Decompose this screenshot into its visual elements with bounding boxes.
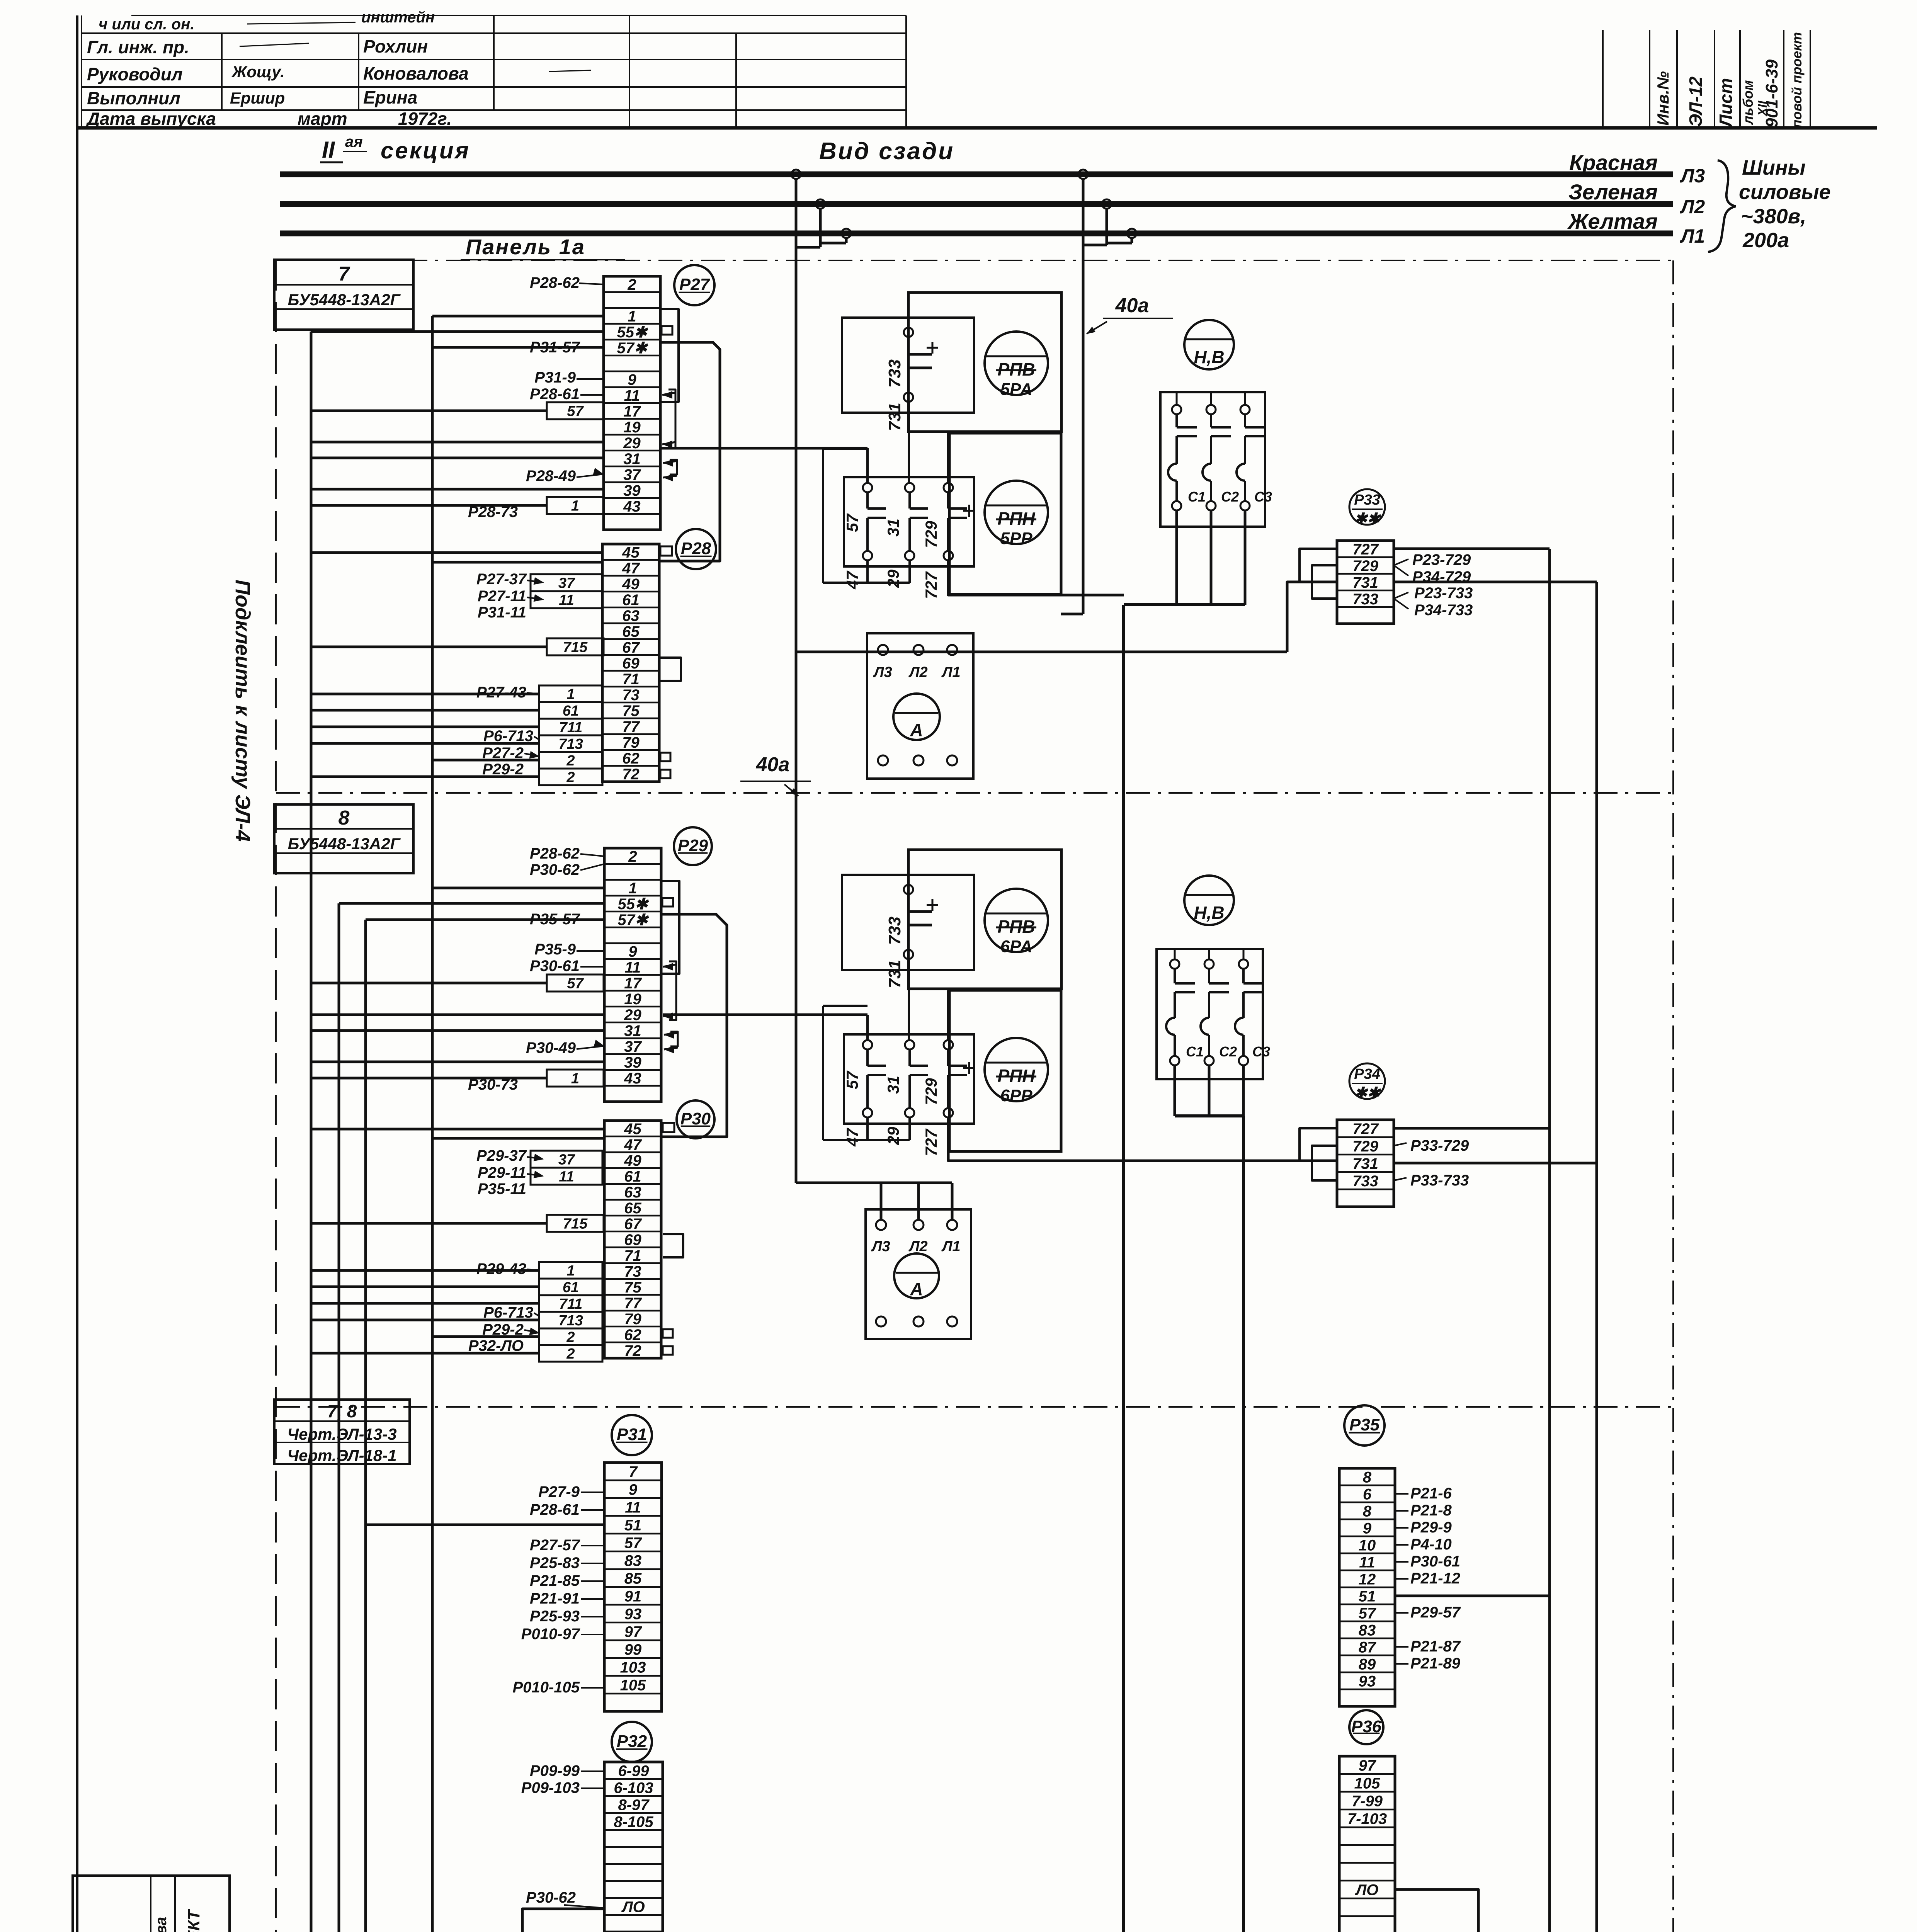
svg-text:Р35-9: Р35-9 — [534, 941, 576, 958]
svg-text:Черт.ЭЛ-18-1: Черт.ЭЛ-18-1 — [287, 1446, 396, 1464]
svg-text:Р010-97: Р010-97 — [521, 1626, 580, 1643]
svg-text:72: 72 — [622, 766, 640, 783]
svg-text:6-99: 6-99 — [618, 1762, 649, 1779]
tap drop wires set 1 — [795, 179, 798, 247]
strip Р27 right jumper bracket rows 1-17 — [660, 309, 679, 402]
svg-text:37: 37 — [624, 1038, 642, 1055]
relay circle Р36 — [1349, 1710, 1383, 1744]
boxed wire tag 2 row 72 (Р30) — [539, 1345, 602, 1362]
svg-text:103: 103 — [620, 1659, 646, 1676]
bus Л2 (Зеленая) — [280, 201, 1673, 207]
svg-text:11: 11 — [559, 1169, 574, 1185]
svg-text:57: 57 — [843, 513, 861, 532]
apparatus РПН-5РР outer box — [949, 433, 1061, 594]
strip Р29 small jumper rows 31-37 with arrows — [670, 1032, 678, 1046]
terminal strip Р33 — [1337, 541, 1394, 624]
svg-text:731: 731 — [1352, 1155, 1378, 1172]
svg-text:1: 1 — [566, 686, 575, 702]
svg-text:67: 67 — [624, 1216, 642, 1233]
РПВ-2 contact terminals 733/731 — [904, 885, 913, 894]
ammeter 1 dial А — [893, 694, 940, 740]
strip Р30 right tabs rows 62/72 — [663, 1329, 673, 1338]
relay circle Р34 with ✱✱ — [1349, 1063, 1385, 1099]
svg-text:Р33-729: Р33-729 — [1410, 1137, 1469, 1154]
svg-text:Р09-103: Р09-103 — [521, 1779, 580, 1796]
svg-text:Р30-62: Р30-62 — [526, 1889, 576, 1906]
svg-text:9: 9 — [1363, 1520, 1372, 1537]
svg-text:200а: 200а — [1742, 229, 1789, 252]
svg-text:62: 62 — [624, 1327, 641, 1344]
svg-text:Выполнил: Выполнил — [87, 88, 180, 108]
title block upper dividers — [150, 1876, 151, 1932]
svg-text:Р31-9: Р31-9 — [534, 369, 576, 386]
РПН-2 polarity plus — [963, 1067, 975, 1069]
svg-text:Р27-11: Р27-11 — [478, 588, 526, 605]
svg-text:✱✱: ✱✱ — [1354, 1085, 1381, 1102]
svg-text:Л1: Л1 — [941, 1238, 960, 1255]
svg-text:45: 45 — [624, 1121, 641, 1138]
svg-text:37: 37 — [623, 466, 641, 483]
svg-text:901-6-39: 901-6-39 — [1762, 59, 1781, 128]
svg-text:Р21-8: Р21-8 — [1410, 1502, 1452, 1519]
title block outer box — [73, 1876, 230, 1932]
svg-text:1: 1 — [628, 880, 637, 897]
svg-text:62: 62 — [622, 750, 640, 767]
svg-text:7: 7 — [629, 1463, 638, 1480]
relay РПН/5РР circle (crossed out) — [985, 481, 1048, 544]
relay circle Р35 — [1344, 1405, 1385, 1446]
svg-text:Панель 1а: Панель 1а — [466, 235, 585, 259]
svg-text:Н,В: Н,В — [1194, 347, 1224, 367]
svg-text:17: 17 — [624, 975, 642, 992]
svg-text:727: 727 — [922, 1128, 940, 1156]
sheet frame left border — [76, 15, 78, 1932]
strip Р28 right tabs rows 62/72 — [660, 753, 670, 761]
svg-text:Р35-57: Р35-57 — [530, 911, 580, 928]
svg-text:Р010-105: Р010-105 — [513, 1679, 580, 1696]
svg-text:7-103: 7-103 — [1347, 1810, 1387, 1827]
svg-text:105: 105 — [1354, 1775, 1380, 1792]
boxed wire tag 2 row 72 — [539, 769, 602, 785]
strip Р30 right tab row 45 — [663, 1123, 674, 1132]
svg-text:77: 77 — [622, 718, 640, 735]
svg-text:57: 57 — [843, 1070, 861, 1089]
svg-text:Л3: Л3 — [873, 664, 892, 680]
svg-text:39: 39 — [623, 482, 641, 499]
svg-text:Р34-729: Р34-729 — [1412, 568, 1471, 585]
svg-text:713: 713 — [558, 736, 583, 752]
terminal strip Р36 — [1339, 1756, 1395, 1932]
РПН polarity plus — [963, 510, 975, 512]
svg-text:Р34: Р34 — [1354, 1066, 1380, 1082]
svg-text:Р29-57: Р29-57 — [1410, 1604, 1461, 1621]
svg-text:57: 57 — [567, 403, 584, 420]
wire strip-57 row to РПН contact 57 — [660, 447, 867, 450]
svg-text:Р31: Р31 — [617, 1425, 647, 1444]
svg-text:89: 89 — [1359, 1656, 1376, 1673]
terminal strip Р34 — [1337, 1120, 1394, 1207]
panel boundary top dash-dot — [276, 260, 1673, 261]
svg-text:Р29-43: Р29-43 — [476, 1260, 526, 1277]
svg-text:55✱: 55✱ — [617, 896, 649, 913]
svg-text:2: 2 — [566, 1346, 575, 1362]
svg-text:Рохлин: Рохлин — [363, 36, 428, 56]
wire strip row29 to РПН-2 contact 57 — [663, 1014, 867, 1016]
РПВ capacitor bars — [909, 353, 932, 356]
svg-text:72: 72 — [624, 1342, 641, 1359]
ammeter 2 dial А — [894, 1253, 939, 1298]
ammeter 1 terminals — [878, 645, 888, 655]
РПН contact sub-box — [844, 477, 974, 566]
svg-text:Р25-93: Р25-93 — [530, 1608, 580, 1625]
strip Р34 labels Р33-733 — [1394, 1178, 1407, 1180]
svg-text:Черт.ЭЛ-13-3: Черт.ЭЛ-13-3 — [287, 1425, 396, 1443]
ammeter 2 bottom studs — [876, 1316, 886, 1327]
terminal strip Р28 — [602, 544, 659, 782]
svg-text:Р33-733: Р33-733 — [1410, 1172, 1469, 1189]
РПН-2 contact sub-box — [844, 1034, 974, 1124]
contactor 1 output bundle to motor wire — [1175, 510, 1178, 605]
svg-text:73: 73 — [624, 1263, 641, 1280]
svg-text:8-97: 8-97 — [618, 1796, 650, 1813]
svg-text:97: 97 — [624, 1623, 642, 1640]
svg-text:Л2: Л2 — [1680, 196, 1705, 218]
svg-text:47: 47 — [622, 560, 640, 577]
svg-text:71: 71 — [622, 671, 640, 688]
svg-text:Л2: Л2 — [908, 1238, 927, 1255]
svg-text:Р21-12: Р21-12 — [1410, 1570, 1460, 1587]
svg-text:31: 31 — [623, 451, 641, 468]
strip Р34 wire 727 to riser x4010 — [1394, 1127, 1550, 1130]
svg-text:69: 69 — [624, 1231, 641, 1248]
svg-text:47: 47 — [843, 570, 861, 589]
svg-text:19: 19 — [624, 991, 641, 1008]
svg-text:37: 37 — [558, 575, 575, 592]
svg-text:Р32: Р32 — [617, 1732, 647, 1751]
relay РПВ/6РА circle (crossed out) — [985, 889, 1048, 952]
svg-text:31: 31 — [884, 1076, 902, 1094]
svg-text:2: 2 — [566, 769, 575, 786]
РПВ polarity plus — [927, 347, 938, 349]
svg-text:40а: 40а — [1115, 294, 1149, 317]
wire РПВ 731 down to РПН 31 — [908, 402, 910, 483]
svg-text:С1: С1 — [1186, 1044, 1204, 1060]
svg-text:Р33: Р33 — [1354, 492, 1380, 508]
svg-text:БУ5448-13А2Г: БУ5448-13А2Г — [288, 835, 401, 853]
svg-text:93: 93 — [624, 1605, 642, 1622]
relay circle Р33 with ✱✱ — [1349, 489, 1385, 525]
svg-text:Р21-89: Р21-89 — [1410, 1655, 1461, 1672]
svg-text:Р4-10: Р4-10 — [1410, 1536, 1452, 1553]
strip Р27 left wires — [432, 315, 604, 318]
bus tap set 1 (node circles) — [791, 170, 801, 179]
svg-text:Р21-87: Р21-87 — [1410, 1638, 1461, 1655]
svg-text:733: 733 — [885, 359, 904, 388]
svg-text:29: 29 — [624, 1007, 641, 1024]
wire 729-2 up to box edge — [947, 990, 949, 1040]
РПВ-2 polarity plus — [927, 904, 938, 906]
svg-text:2: 2 — [628, 848, 637, 865]
svg-text:99: 99 — [624, 1641, 642, 1658]
svg-text:63: 63 — [622, 607, 640, 624]
bus Л3 (Красная) — [280, 172, 1673, 177]
strip Р33 labels Р23-733 Р34-733 — [1394, 592, 1408, 599]
svg-text:Р29-37: Р29-37 — [476, 1147, 527, 1164]
wire 727-2 down and right to strip Р34 — [948, 1117, 1337, 1161]
svg-text:57✱: 57✱ — [617, 912, 649, 929]
svg-text:85: 85 — [624, 1570, 642, 1587]
svg-text:51: 51 — [1359, 1588, 1376, 1605]
contactor 2 poles С1 С2 С3 — [1170, 959, 1179, 969]
svg-text:11: 11 — [559, 592, 574, 609]
РПН-2 contacts — [863, 1040, 872, 1049]
svg-text:11: 11 — [625, 959, 641, 976]
contactor 1 poles С1 С2 С3 — [1172, 405, 1181, 414]
wire riser C (to К8-3) — [366, 920, 595, 1932]
svg-text:69: 69 — [622, 655, 640, 672]
section divider dash-dot 2 — [276, 1406, 1673, 1408]
svg-text:Л1: Л1 — [1680, 225, 1705, 247]
svg-text:1: 1 — [628, 308, 636, 325]
svg-text:6РР: 6РР — [1000, 1086, 1032, 1105]
strip Р34 left stub jumpers — [1300, 1128, 1337, 1161]
svg-text:Л3: Л3 — [871, 1238, 890, 1255]
svg-text:731: 731 — [1352, 574, 1378, 591]
svg-text:секция: секция — [381, 138, 470, 163]
svg-text:31: 31 — [884, 519, 902, 537]
svg-text:С2: С2 — [1219, 1044, 1237, 1060]
jumper loop 57-47 section 2 (x1881) — [661, 914, 727, 1137]
svg-text:Руководил: Руководил — [87, 64, 183, 84]
svg-text:С1: С1 — [1188, 489, 1206, 505]
svg-text:Р28-49: Р28-49 — [526, 468, 576, 485]
svg-text:ч или сл. он.: ч или сл. он. — [99, 16, 194, 33]
relay circle Р28 — [676, 529, 716, 569]
feeder wire to ammeter 2 — [796, 1182, 952, 1184]
svg-text:Р29-9: Р29-9 — [1410, 1519, 1452, 1536]
svg-text:Дата выпуска: Дата выпуска — [85, 109, 216, 129]
svg-text:С3: С3 — [1254, 489, 1272, 505]
svg-text:Р34-733: Р34-733 — [1414, 602, 1473, 619]
svg-text:Вид сзади: Вид сзади — [819, 138, 954, 165]
svg-text:Р29-11: Р29-11 — [478, 1164, 526, 1181]
svg-text:29: 29 — [884, 569, 902, 588]
svg-text:77: 77 — [624, 1295, 642, 1312]
svg-text:49: 49 — [622, 576, 640, 593]
relay РПВ/5РА circle (crossed out) — [985, 332, 1048, 395]
motor wire 1 (x2908) — [1122, 605, 1125, 1932]
svg-text:8: 8 — [338, 807, 350, 829]
svg-text:61: 61 — [563, 703, 579, 719]
svg-text:А: А — [910, 720, 923, 740]
svg-text:8: 8 — [1363, 1469, 1372, 1486]
terminal strip Р32 — [604, 1762, 663, 1932]
svg-text:Н,В: Н,В — [1194, 903, 1224, 923]
svg-text:Р25-83: Р25-83 — [530, 1554, 580, 1571]
svg-text:1972г.: 1972г. — [398, 109, 452, 129]
svg-text:С2: С2 — [1221, 489, 1239, 505]
svg-text:51: 51 — [624, 1517, 642, 1534]
svg-text:ТЯЖПРОМЭЛЕКТРОПРОЕКТ: ТЯЖПРОМЭЛЕКТРОПРОЕКТ — [185, 1909, 203, 1932]
svg-text:91: 91 — [624, 1588, 642, 1605]
ammeter 1 bottom studs — [878, 755, 888, 765]
svg-text:65: 65 — [622, 623, 640, 640]
strip Р29 right jumper bracket rows 1-17 — [661, 881, 679, 974]
wire loop 47/29 left — [866, 560, 869, 583]
brace for bus group — [1708, 160, 1736, 252]
svg-text:Л2: Л2 — [908, 664, 927, 680]
svg-text:61: 61 — [624, 1168, 641, 1185]
svg-text:47: 47 — [843, 1128, 861, 1146]
svg-text:2: 2 — [566, 1329, 575, 1345]
svg-text:733: 733 — [885, 917, 904, 945]
svg-text:39: 39 — [624, 1054, 641, 1071]
feeder wire x2060 (Л3 phase to ammeters) — [795, 247, 798, 1183]
strip Р33 wire 731 to riser x4132 — [1394, 581, 1597, 583]
contactor 2 box — [1157, 949, 1263, 1079]
wire riser B (to К7-2) — [339, 903, 390, 1932]
svg-text:II: II — [322, 137, 335, 163]
svg-text:49: 49 — [624, 1152, 641, 1169]
strip Р33 wire 727 to riser x4010 — [1394, 548, 1550, 550]
svg-text:715: 715 — [563, 1216, 588, 1232]
strip Р29 jumper tab row 55 — [662, 898, 673, 906]
svg-text:711: 711 — [559, 719, 583, 736]
strip Р34 wire 731 to riser x4132 — [1394, 1162, 1597, 1165]
svg-text:29: 29 — [623, 435, 641, 452]
ammeter 2 box — [866, 1209, 971, 1339]
boxed wire tag 57 to row 17 (Р29) — [547, 975, 604, 992]
strip Р29 small jumper rows 11-17 with arrows — [669, 961, 676, 1020]
svg-text:БУ5448-13А2Г: БУ5448-13А2Г — [288, 291, 401, 309]
svg-text:Лист: Лист — [1716, 78, 1736, 128]
svg-text:инштейн: инштейн — [361, 9, 435, 26]
svg-text:9: 9 — [628, 943, 637, 960]
svg-text:Шины: Шины — [1742, 156, 1806, 179]
svg-text:2: 2 — [566, 753, 575, 769]
boxed wire tag 61 row 75 — [539, 702, 602, 719]
wire loop 47/29 left (section 2) — [866, 1117, 869, 1140]
strip Р35 row 51 wire to riser x4010 — [1395, 1595, 1550, 1597]
terminal strip Р35 — [1339, 1468, 1395, 1706]
svg-text:ЛО: ЛО — [621, 1898, 645, 1915]
svg-text:Р27: Р27 — [679, 275, 711, 294]
svg-text:715: 715 — [563, 639, 588, 656]
svg-text:Р21-91: Р21-91 — [530, 1590, 580, 1607]
РПН contacts 57-47 / 31-29 / 729-727 — [863, 483, 872, 492]
wire riser D (to К8-2) — [432, 316, 478, 1932]
terminal strip Р31 — [604, 1463, 662, 1711]
svg-text:73: 73 — [622, 687, 640, 704]
svg-text:727: 727 — [922, 571, 940, 599]
svg-text:729: 729 — [922, 520, 940, 548]
strip Р29 left wires — [432, 887, 604, 889]
svg-text:57✱: 57✱ — [617, 340, 648, 357]
riser x4132 — [1596, 582, 1598, 1932]
svg-text:Р30-61: Р30-61 — [530, 957, 580, 975]
svg-text:Р29-2: Р29-2 — [482, 761, 524, 778]
svg-text:Ерина: Ерина — [363, 87, 417, 107]
svg-text:Р27-37: Р27-37 — [476, 571, 527, 588]
svg-text:75: 75 — [622, 702, 640, 719]
svg-text:Р30-49: Р30-49 — [526, 1039, 576, 1056]
svg-text:Р27-57: Р27-57 — [530, 1537, 580, 1554]
svg-text:5РР: 5РР — [1000, 529, 1032, 548]
svg-text:75: 75 — [624, 1279, 641, 1296]
svg-text:Р27-43: Р27-43 — [476, 684, 526, 701]
svg-text:45: 45 — [622, 544, 640, 561]
riser x4010 — [1548, 549, 1551, 1932]
svg-text:1: 1 — [571, 498, 579, 514]
svg-text:97: 97 — [1359, 1757, 1376, 1774]
svg-text:Красная: Красная — [1569, 150, 1658, 175]
terminal strip Р30 — [604, 1121, 661, 1358]
svg-text:9: 9 — [629, 1481, 638, 1498]
svg-text:63: 63 — [624, 1184, 641, 1201]
ammeter 2 terminals — [876, 1220, 886, 1230]
terminal strip Р27 — [604, 276, 660, 530]
svg-text:Р23-733: Р23-733 — [1414, 585, 1473, 602]
svg-text:Р28-61: Р28-61 — [530, 386, 580, 403]
svg-text:733: 733 — [1352, 591, 1378, 608]
panel boundary left dashed (линия склейки) — [275, 260, 277, 1932]
bus Л1 (Желтая) — [280, 231, 1673, 236]
approval table grid — [131, 15, 906, 16]
tap drop wires set 2 — [1082, 179, 1085, 245]
boxed wire tag 715 to row 67 — [547, 638, 604, 655]
svg-text:12: 12 — [1359, 1571, 1376, 1588]
section divider dash-dot 1 — [276, 792, 1673, 794]
svg-text:2: 2 — [627, 276, 636, 293]
svg-text:Р35-11: Р35-11 — [478, 1180, 526, 1197]
svg-text:57: 57 — [624, 1534, 642, 1551]
svg-text:7-99: 7-99 — [1352, 1793, 1383, 1810]
svg-text:Ершир: Ершир — [230, 89, 285, 107]
svg-text:727: 727 — [1352, 541, 1379, 558]
svg-text:Инв.№: Инв.№ — [1654, 71, 1672, 126]
svg-text:ЭЛ-12: ЭЛ-12 — [1686, 77, 1706, 127]
apparatus РПВ-6РА outer box — [908, 850, 1061, 989]
svg-text:83: 83 — [1359, 1622, 1376, 1639]
svg-text:~380в,: ~380в, — [1741, 205, 1806, 228]
svg-text:повой проект: повой проект — [1789, 32, 1805, 128]
svg-text:87: 87 — [1359, 1639, 1376, 1656]
svg-text:8-105: 8-105 — [614, 1813, 653, 1830]
svg-text:Р30-61: Р30-61 — [1410, 1553, 1460, 1570]
feeder wire x2803 — [1082, 245, 1085, 614]
svg-text:105: 105 — [620, 1677, 646, 1694]
panel boundary right dash-dot — [1672, 260, 1674, 1932]
svg-text:93: 93 — [1359, 1673, 1376, 1690]
svg-text:Жощу.: Жощу. — [231, 63, 285, 81]
svg-text:731: 731 — [885, 960, 904, 988]
svg-text:11: 11 — [624, 387, 640, 404]
strip Р28 right bracket rows 69-71 — [660, 658, 681, 681]
svg-text:Р6-713: Р6-713 — [483, 1304, 533, 1321]
РПВ-2 contact sub-box — [842, 875, 974, 970]
svg-text:✱✱: ✱✱ — [1354, 510, 1381, 527]
svg-text:ая: ая — [345, 133, 363, 150]
terminal strip Р29 — [604, 848, 661, 1102]
svg-text:Р27-9: Р27-9 — [538, 1483, 580, 1500]
svg-text:65: 65 — [624, 1200, 641, 1217]
strip Р27 small jumper rows 11-17 with arrows — [668, 389, 675, 448]
svg-text:ЛО: ЛО — [1355, 1881, 1379, 1898]
svg-text:57: 57 — [567, 976, 584, 992]
strip Р30 left wires rows 45/47 — [311, 1128, 604, 1131]
svg-text:Подклеить к листу ЭЛ-4: Подклеить к листу ЭЛ-4 — [231, 580, 254, 842]
svg-text:Зеленая: Зеленая — [1568, 180, 1658, 204]
